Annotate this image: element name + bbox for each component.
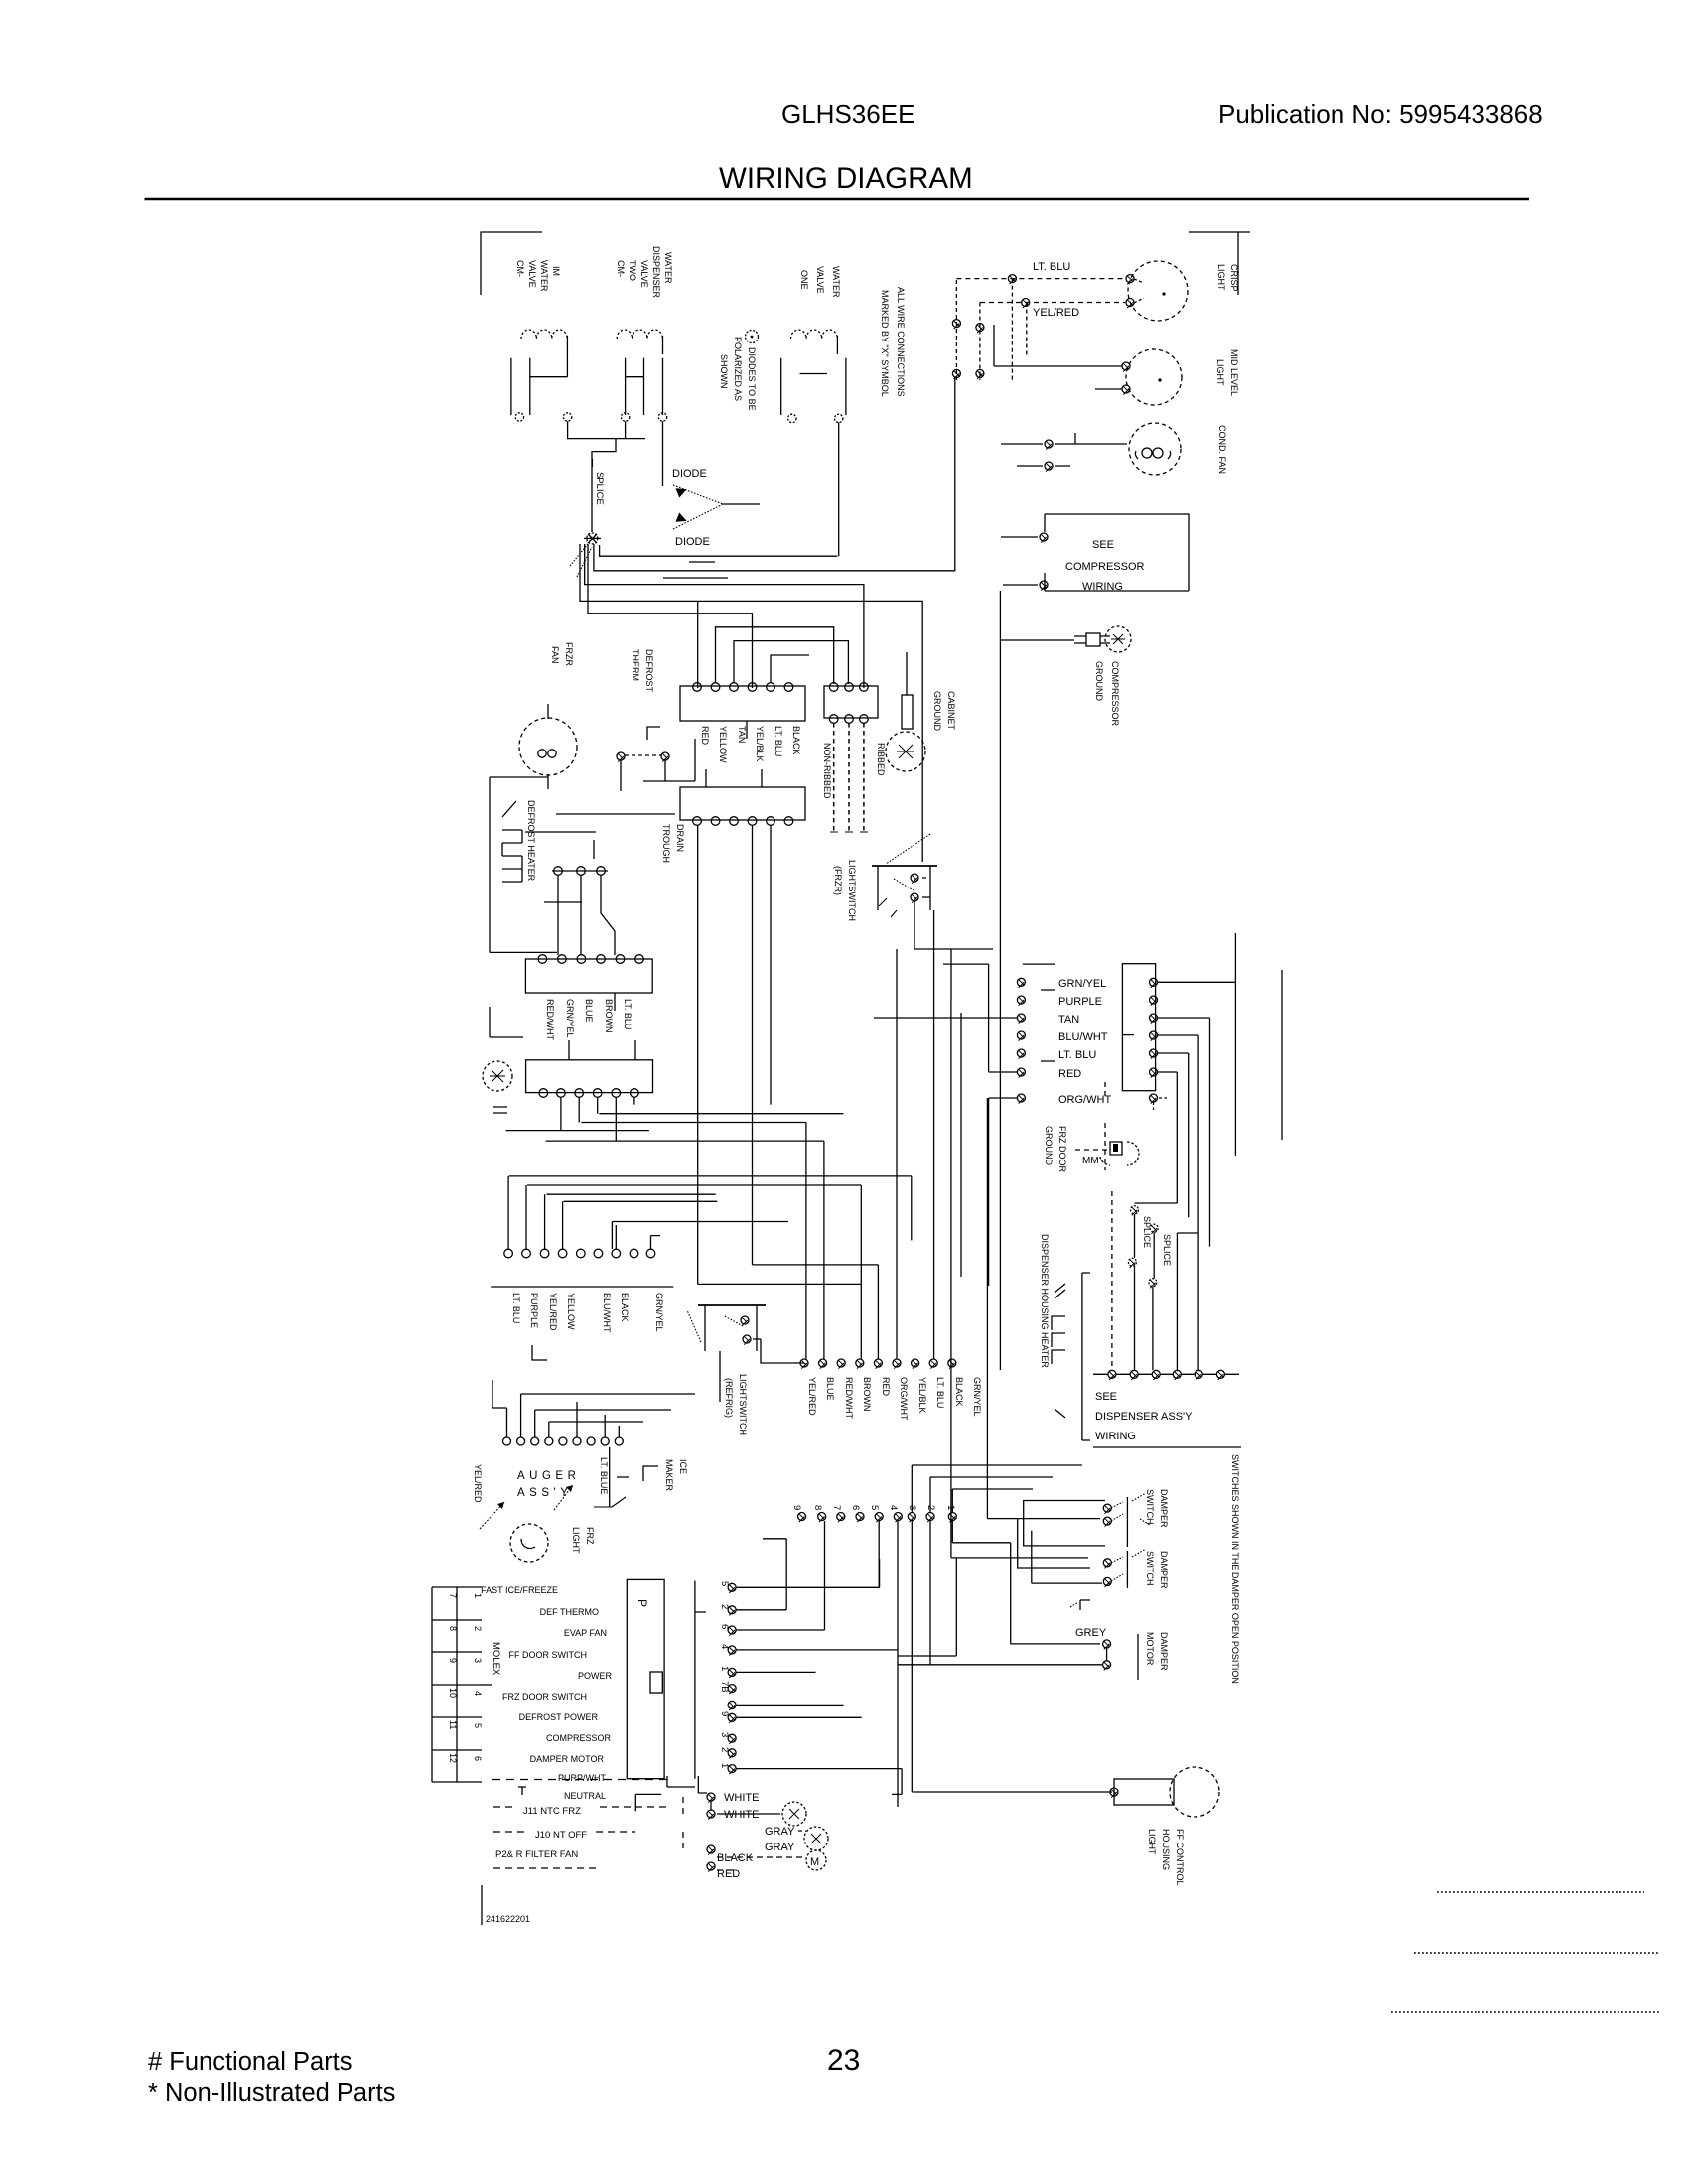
wire: to FF control light (912, 1791, 1112, 1793)
P notch (650, 1672, 662, 1693)
wire: bus from frz door area down (1104, 1082, 1106, 1170)
wire: ORG/WHT feed (989, 1098, 1017, 1286)
crisp light terminals X (1126, 275, 1134, 309)
water valve 1 terminals (515, 413, 523, 421)
corner bracket top-right (1189, 232, 1250, 295)
svg-text:MID LEVEL: MID LEVEL (1229, 349, 1239, 396)
see dispenser row pins (1108, 1370, 1225, 1380)
svg-text:LT. BLU: LT. BLU (623, 999, 633, 1029)
frz light bracket corner (490, 1007, 523, 1037)
wire: short stub A (689, 561, 715, 563)
svg-text:RIBBED: RIBBED (876, 743, 886, 776)
pin 2 (719, 1604, 730, 1609)
pin 6 (719, 1624, 730, 1629)
GRN/YEL left X terminals (1017, 978, 1025, 1103)
wire: auger webs (507, 1394, 620, 1437)
svg-text:SWITCH: SWITCH (1145, 1551, 1155, 1586)
svg-text:4: 4 (888, 1505, 899, 1510)
splice node right 1 (1128, 1206, 1138, 1268)
svg-text:DRAIN: DRAIN (675, 824, 685, 852)
svg-text:MAKER: MAKER (664, 1459, 674, 1492)
labels: left row colors (511, 1293, 664, 1333)
svg-text:MARKED BY "X" SYMBOL: MARKED BY "X" SYMBOL (880, 290, 890, 397)
label: box3 wire colors (545, 999, 633, 1040)
wire: valve1-t2 to valve2-t1 bus (568, 421, 645, 438)
white/gray terminal X marks (707, 1793, 715, 1872)
svg-text:LT. BLUE: LT. BLUE (599, 1457, 609, 1494)
frz box pins (539, 1089, 638, 1098)
svg-text:1: 1 (945, 1505, 956, 1510)
ribbed box bottom pins (829, 715, 868, 724)
pin 3 (719, 1732, 730, 1737)
wire: splice1 down to dispenser row (1134, 1266, 1136, 1370)
see dispenser underline (1093, 1446, 1241, 1448)
wire: junction down to splice (592, 439, 616, 532)
wire: splice to valve3 terminal (600, 545, 838, 556)
svg-text:8: 8 (812, 1505, 823, 1510)
wire: gray dashed (798, 1830, 806, 1832)
pin 1b (719, 1763, 730, 1768)
wire: valve3-t2 down to splice line (838, 423, 840, 557)
wire: splice2 down to dispenser row (1152, 1287, 1154, 1370)
svg-text:THERM.: THERM. (631, 649, 640, 684)
node X on YEL/RED (1022, 299, 1030, 309)
svg-text:SEE: SEE (1095, 1391, 1117, 1403)
svg-text:BROWN: BROWN (862, 1377, 872, 1412)
wire: web H i (612, 1222, 788, 1250)
wire: web H b (581, 1122, 806, 1124)
svg-text:RED: RED (700, 726, 710, 746)
bottom right dotted lines (1437, 1891, 1644, 1893)
svg-text:5: 5 (869, 1505, 880, 1510)
left labeled row pins (504, 1249, 655, 1258)
svg-text:SPLICE: SPLICE (594, 472, 605, 505)
label: LT. BLUE (599, 1457, 609, 1494)
svg-text:YEL/RED: YEL/RED (473, 1464, 483, 1503)
svg-text:NON-RIBBED: NON-RIBBED (822, 743, 832, 799)
wire: diode output (723, 503, 760, 505)
ribbed dashed wires (834, 723, 864, 832)
6-pin connector box lower (red/wht...) (525, 959, 652, 993)
svg-text:DEFROST: DEFROST (644, 649, 654, 693)
svg-text:BLUE: BLUE (825, 1377, 835, 1401)
svg-text:FF DOOR SWITCH: FF DOOR SWITCH (509, 1650, 588, 1660)
label: FRZ LIGHT (571, 1527, 595, 1554)
wire: board LT.BLU out (1158, 1053, 1189, 1217)
wire: compressor ground lead (1001, 639, 1074, 641)
water valve 1 coil (521, 330, 567, 339)
vertical dashed right of J rows (682, 1797, 684, 1851)
pin 1 (719, 1666, 730, 1671)
svg-text:DIODE: DIODE (672, 468, 707, 479)
wire: board TAN out (1158, 1018, 1210, 1247)
see dispenser row line (1093, 1373, 1239, 1375)
dashed riser pin1 (1111, 1191, 1113, 1370)
svg-text:WIRING: WIRING (1082, 581, 1123, 593)
wire: lightswitch to GRN/YEL block riser (914, 901, 993, 1000)
box3 tick (614, 993, 616, 1011)
node X on LT.BLU (1008, 275, 1016, 285)
label: SWITCHES SHOWN IN THE DAMPER OPEN POSITION (1230, 1454, 1240, 1684)
wire: right long buses down (898, 1521, 956, 1807)
svg-text:YEL/RED: YEL/RED (548, 1293, 558, 1331)
svg-text:LT. BLU: LT. BLU (511, 1293, 521, 1323)
circled-dot symbol (746, 331, 759, 343)
svg-text:PURPLE: PURPLE (1058, 996, 1102, 1008)
MOLEX table (432, 1587, 482, 1782)
wire: web H g (547, 1193, 716, 1195)
label: FF CONTROL HOUSING LIGHT (1147, 1829, 1185, 1886)
svg-text:HOUSING: HOUSING (1161, 1829, 1171, 1870)
label: DAMPER SWITCH upper (1145, 1489, 1169, 1528)
wire: web H e (509, 1175, 912, 1177)
wire: board BLU/WHT out (1158, 1035, 1199, 1370)
label: DISPENSER HOUSING HEATER (1040, 1234, 1050, 1368)
pin 4 (719, 1644, 730, 1649)
svg-text:FRZ DOOR SWITCH: FRZ DOOR SWITCH (502, 1692, 587, 1702)
label: CRISP LIGHT (1216, 264, 1239, 292)
svg-text:8: 8 (448, 1626, 458, 1631)
pin 7B (719, 1681, 730, 1693)
wire: left bus x958 down (950, 1000, 952, 1558)
svg-text:10: 10 (448, 1688, 458, 1698)
labels: control board signals (481, 1585, 612, 1801)
connector box 1 (6 pin) (680, 686, 805, 721)
damper switch upper (1103, 1493, 1150, 1547)
wire: LT.BLU dashed net (956, 278, 1125, 280)
wire: left bus corner to box3 (490, 951, 557, 953)
pin 9 (719, 1711, 730, 1716)
molex tick (482, 1684, 492, 1686)
defrost thermostat corner (647, 727, 660, 740)
svg-text:LT. BLU: LT. BLU (935, 1377, 945, 1408)
3-pin ribbed connector box (824, 686, 878, 718)
label: LIGHTSWITCH (REFRIG) (724, 1374, 748, 1435)
label: COND. FAN (1217, 425, 1227, 474)
svg-text:CRISP: CRISP (1229, 264, 1239, 292)
cabinet ground lug (886, 695, 925, 771)
svg-text:BLU/WHT: BLU/WHT (602, 1293, 612, 1333)
damper motor underline (1137, 1634, 1139, 1680)
label: COMPRESSOR GROUND (1094, 661, 1120, 727)
heater top wire (490, 776, 548, 778)
P connector box (627, 1579, 664, 1778)
svg-text:WHITE: WHITE (724, 1809, 759, 1821)
svg-text:ONE: ONE (799, 270, 809, 290)
frz light pointer line (594, 1497, 626, 1507)
svg-text:CABINET: CABINET (946, 691, 956, 731)
damper switch brackets (1024, 1501, 1105, 1546)
heater chevrons (1055, 1284, 1065, 1418)
svg-text:BLUE: BLUE (584, 999, 594, 1023)
svg-text:YEL/BLK: YEL/BLK (917, 1377, 927, 1414)
wire: box1 pin2 riser (716, 627, 834, 684)
svg-text:DEFROST POWER: DEFROST POWER (519, 1712, 599, 1722)
header (719, 99, 1543, 195)
svg-text:LT. BLU: LT. BLU (1058, 1049, 1096, 1061)
svg-text:RED: RED (881, 1377, 891, 1397)
footer (148, 2044, 860, 2107)
splice dotted arrows (570, 544, 592, 577)
svg-text:SPLICE: SPLICE (1142, 1216, 1152, 1248)
defrost heater element (502, 801, 522, 882)
svg-text:GRAY: GRAY (765, 1842, 795, 1853)
svg-text:COMPRESSOR: COMPRESSOR (546, 1733, 612, 1743)
wire: crossing bar (544, 901, 582, 903)
label: ICE MAKER (664, 1459, 688, 1492)
svg-text:BLU/WHT: BLU/WHT (1058, 1031, 1108, 1043)
left row underline (491, 1286, 673, 1288)
svg-text:MOTOR: MOTOR (1145, 1632, 1155, 1666)
wire: web H h (564, 1200, 718, 1202)
frz door ground symbol (1075, 1142, 1139, 1166)
svg-text:BLACK: BLACK (717, 1852, 754, 1864)
svg-text:WATER: WATER (831, 266, 841, 298)
diode dotted leads (673, 485, 723, 529)
wire: web H a (599, 1113, 843, 1115)
svg-text:GREY: GREY (1075, 1627, 1107, 1639)
water valve 3 body (781, 336, 846, 415)
svg-text:TAN: TAN (737, 726, 747, 743)
svg-text:RED: RED (1058, 1068, 1081, 1080)
svg-text:BLACK: BLACK (791, 726, 801, 755)
wire: right long vertical pair (1235, 933, 1282, 1156)
svg-text:VALVE: VALVE (639, 260, 649, 288)
svg-text:RED/WHT: RED/WHT (844, 1377, 854, 1419)
svg-text:23: 23 (827, 2044, 860, 2077)
node X terminals on light connector (952, 320, 984, 379)
diode 2 symbol (675, 512, 688, 525)
svg-text:11: 11 (448, 1720, 458, 1729)
wires from mid terminals (558, 875, 615, 955)
svg-text:ICE: ICE (678, 1459, 688, 1474)
wire: compressor box stub to bus (1001, 537, 1038, 585)
M motor (806, 1850, 826, 1870)
svg-text:P: P (635, 1599, 649, 1607)
wire: web vertical to row pin2 (823, 1141, 825, 1359)
svg-text:GROUND: GROUND (1044, 1126, 1054, 1165)
svg-text:YELLOW: YELLOW (718, 726, 728, 763)
svg-text:LIGHTSWITCH: LIGHTSWITCH (738, 1374, 748, 1435)
wire: splice to connector box pin4 (588, 544, 753, 688)
wire: left row risers (508, 1176, 660, 1249)
equals mark (493, 1107, 507, 1113)
svg-text:DIODES TO BE: DIODES TO BE (747, 347, 757, 411)
dispenser bracket (1082, 1273, 1090, 1440)
svg-text:ORG/WHT: ORG/WHT (1058, 1094, 1111, 1106)
svg-text:SWITCH: SWITCH (1145, 1489, 1155, 1525)
label: P (635, 1599, 649, 1607)
cond fan motor (1129, 423, 1181, 475)
wire: YEL/RED dashed net (980, 302, 1125, 304)
P right rail (695, 1581, 706, 1779)
light connector dashed block (956, 279, 1026, 380)
compressor box pins X (1040, 533, 1048, 591)
wire: web H c (506, 1130, 649, 1132)
svg-text:YEL/RED: YEL/RED (807, 1377, 817, 1416)
svg-text:BLACK: BLACK (620, 1293, 630, 1322)
svg-text:ASS'Y: ASS'Y (517, 1487, 572, 1499)
pin blank (728, 1701, 736, 1710)
svg-text:4: 4 (473, 1691, 483, 1696)
svg-text:MOLEX: MOLEX (491, 1642, 501, 1676)
wire: box1 pin1 riser (697, 601, 699, 688)
svg-text:9: 9 (791, 1505, 802, 1510)
white bulb (782, 1802, 806, 1826)
damper motor terminals (1103, 1640, 1111, 1671)
label: DIODE (upper) (672, 468, 710, 548)
labels: wire colors GRN/YEL..ORG/WHT (1058, 978, 1111, 1106)
numbered row 9..1 (791, 1505, 956, 1510)
label: FRZ DOOR GROUND (1044, 1126, 1067, 1172)
svg-text:IM: IM (551, 266, 561, 276)
svg-text:GROUND: GROUND (932, 691, 942, 731)
svg-text:* Non-Illustrated Parts: * Non-Illustrated Parts (148, 2079, 395, 2107)
svg-text:FRZ DOOR: FRZ DOOR (1057, 1126, 1067, 1172)
svg-text:CM-: CM- (515, 260, 525, 277)
svg-text:SHOWN: SHOWN (719, 354, 729, 389)
svg-text:7: 7 (448, 1593, 458, 1598)
label: DAMPER SWITCH lower (1145, 1551, 1169, 1589)
svg-text:YEL/BLK: YEL/BLK (755, 726, 765, 762)
water valve 1 body (511, 336, 568, 415)
lt blue wire (610, 1447, 629, 1507)
svg-text:NEUTRAL: NEUTRAL (564, 1791, 606, 1801)
gray bulb (804, 1827, 828, 1850)
svg-text:DIODE: DIODE (675, 536, 710, 548)
label: SPLICE right 2 (1162, 1234, 1172, 1266)
svg-text:M: M (810, 1856, 819, 1868)
wire: splice to ribbed pin (585, 544, 864, 688)
small contact mark (1080, 1600, 1090, 1610)
part number block (481, 1885, 483, 1925)
svg-text:DAMPER: DAMPER (1159, 1551, 1169, 1589)
svg-text:WHITE: WHITE (724, 1792, 759, 1804)
svg-text:WATER: WATER (663, 252, 673, 284)
svg-text:WIRING: WIRING (1095, 1431, 1136, 1442)
svg-text:EVAP FAN: EVAP FAN (564, 1628, 607, 1638)
svg-text:COMPRESSOR: COMPRESSOR (1110, 661, 1120, 727)
wire: web vertical x884 (753, 1265, 879, 1359)
svg-text:LIGHT: LIGHT (1147, 1829, 1157, 1855)
wire: TAN feed (874, 1017, 1017, 1019)
auger assy row pins (503, 1437, 624, 1445)
crisp light bulb (1128, 261, 1188, 321)
svg-text:J11 NTC FRZ: J11 NTC FRZ (523, 1806, 581, 1817)
svg-text:DISPENSER HOUSING HEATER: DISPENSER HOUSING HEATER (1040, 1234, 1050, 1368)
svg-text:TWO: TWO (628, 260, 637, 281)
svg-text:3: 3 (473, 1658, 483, 1663)
frz light bulb (510, 1524, 548, 1562)
svg-text:DAMPER MOTOR: DAMPER MOTOR (530, 1754, 605, 1764)
wire: splice to light connector (594, 377, 955, 571)
GRN/YEL connector block top bracket (943, 963, 1055, 965)
label: FRZR FAN (550, 642, 574, 666)
svg-text:AUGER: AUGER (517, 1470, 580, 1482)
mid level light bulb (1126, 349, 1182, 405)
svg-text:6: 6 (850, 1505, 861, 1510)
svg-text:LIGHTSWITCH: LIGHTSWITCH (847, 860, 857, 921)
cabinet ground wire (906, 652, 908, 695)
svg-text:DAMPER: DAMPER (1159, 1632, 1169, 1671)
water valve 2 terminals (621, 413, 629, 421)
svg-text:GRN/YEL: GRN/YEL (654, 1293, 664, 1332)
wire: long risers above web (897, 910, 961, 1277)
label: LIGHTSWITCH (FRZR) (833, 860, 857, 921)
wire: web vertical x940 (933, 1013, 935, 1359)
label: IM WATER VALVE CM- (515, 260, 561, 292)
wire: splice to lightswitch riser (580, 544, 922, 862)
svg-text:P2& R FILTER FAN: P2& R FILTER FAN (495, 1849, 578, 1860)
box1 center tick (746, 721, 748, 739)
wire: web H f (527, 1184, 861, 1186)
ice maker bracket (643, 1466, 658, 1481)
board right X pins (1150, 978, 1158, 1103)
svg-text:PURP/WHT: PURP/WHT (558, 1773, 606, 1783)
frz light dotted arrows (480, 1485, 573, 1529)
label: DIODES TO BE POLARIZED AS SHOWN (719, 337, 757, 411)
svg-text:(REFRIG): (REFRIG) (724, 1378, 734, 1418)
svg-text:POLARIZED AS: POLARIZED AS (733, 337, 743, 401)
svg-text:LIGHT: LIGHT (1215, 359, 1225, 386)
label: SPLICE (594, 472, 605, 505)
box2 ticks (706, 769, 762, 787)
label: NON-RIBBED (822, 743, 886, 799)
mid level light wires (994, 325, 1122, 389)
svg-text:5: 5 (473, 1723, 483, 1728)
label: DRAIN TROUGH (661, 824, 685, 863)
svg-text:DAMPER: DAMPER (1159, 1489, 1169, 1528)
connector box 2 (drain trough) (680, 787, 805, 820)
mid level light terminals X (1122, 362, 1130, 395)
svg-text:ORG/WHT: ORG/WHT (899, 1377, 909, 1421)
pin 5 (719, 1581, 730, 1586)
svg-text:YEL/RED: YEL/RED (1033, 307, 1079, 319)
splice node right 2 (1149, 1224, 1158, 1288)
label: MID LEVEL LIGHT (1215, 349, 1239, 396)
label: YEL/RED left (473, 1464, 483, 1503)
diode 1 symbol (675, 484, 688, 497)
svg-text:DEFROST HEATER: DEFROST HEATER (526, 800, 536, 882)
mid terminals row (3 circles) (552, 867, 608, 876)
label: SEE COMPRESSOR WIRING (1065, 539, 1145, 593)
svg-text:FRZ: FRZ (585, 1527, 595, 1545)
label: box1 wire colors (700, 726, 801, 763)
svg-text:SPLICE: SPLICE (1162, 1234, 1172, 1266)
svg-text:SWITCHES SHOWN IN THE DAMPER O: SWITCHES SHOWN IN THE DAMPER OPEN POSITI… (1230, 1454, 1240, 1684)
labels: middle row colors (807, 1377, 982, 1421)
FF control housing light (1110, 1767, 1219, 1817)
svg-text:RED/WHT: RED/WHT (545, 999, 555, 1040)
label: MOLEX (491, 1642, 501, 1676)
label: WATER DISPENSER VALVE CM-TWO (616, 246, 673, 299)
wire: web vertical x867 (860, 1185, 862, 1359)
label: SPLICE right 1 (1142, 1216, 1152, 1248)
wire: RED feed with left riser (989, 964, 1017, 1072)
splice tick symbol (592, 459, 594, 467)
svg-text:DISPENSER: DISPENSER (651, 246, 661, 299)
wire: board RED out (1135, 1072, 1178, 1203)
box1 pins (693, 683, 793, 692)
svg-text:WIRING DIAGRAM: WIRING DIAGRAM (719, 162, 973, 195)
svg-text:VALVE: VALVE (527, 260, 537, 288)
box2 pins bottom (693, 817, 793, 826)
corner mark below row (532, 1345, 547, 1360)
svg-text:LIGHT: LIGHT (1216, 264, 1226, 291)
label: CABINET GROUND (932, 691, 956, 731)
svg-text:7: 7 (831, 1505, 842, 1510)
wire: valve2-t2 stub (662, 421, 664, 486)
